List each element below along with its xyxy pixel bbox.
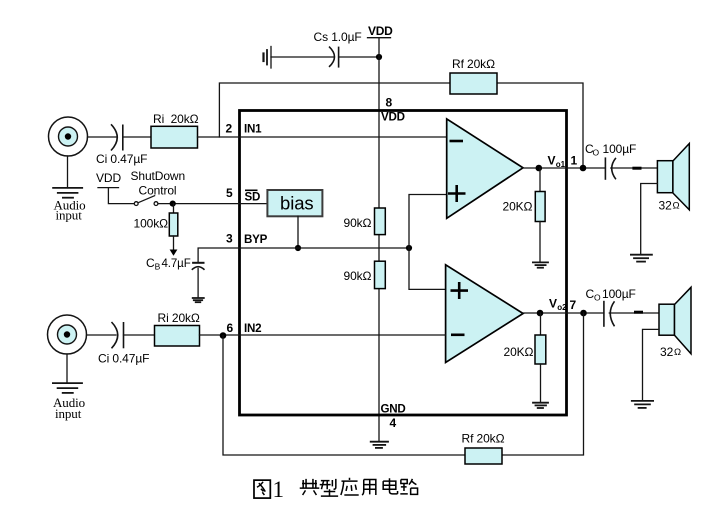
wire Cs to VDD node — [339, 56, 379, 58]
label Vo1 — [548, 154, 566, 170]
svg-text:o2: o2 — [557, 303, 567, 312]
svg-text:Ω: Ω — [673, 201, 680, 212]
svg-text:20KΩ: 20KΩ — [503, 199, 533, 213]
ground (20K output1) — [533, 222, 548, 268]
svg-text:90kΩ: 90kΩ — [344, 269, 372, 283]
svg-text:VDD: VDD — [368, 24, 393, 38]
bias block — [267, 190, 322, 216]
wire ground to Cs — [271, 56, 334, 58]
svg-text:Ω: Ω — [674, 347, 681, 358]
svg-text:32: 32 — [659, 199, 673, 213]
wire jack2 to Ci2 — [87, 334, 117, 336]
op-amp U1A — [447, 119, 523, 218]
svg-text:IN1: IN1 — [244, 123, 262, 136]
svg-text:Ci 0.47µF: Ci 0.47µF — [98, 352, 149, 366]
wire speaker1 to ground — [641, 184, 658, 255]
glyph 电 — [383, 478, 397, 494]
wire Ri to pin 2 IN1 / op-amp minus — [198, 136, 447, 138]
node shutdown junction — [170, 201, 176, 207]
capacitor Ci 0.47uF (ch2) — [98, 322, 149, 366]
speaker LS1 — [657, 144, 689, 213]
wire top feedback loop — [219, 83, 583, 168]
arrow to ground below 100k — [170, 236, 178, 256]
glyph 典 — [300, 479, 320, 495]
svg-text:1: 1 — [273, 477, 284, 502]
resistor Rf 20k (bottom) — [462, 432, 505, 465]
svg-text:3: 3 — [226, 232, 233, 246]
label Vo2 — [549, 297, 567, 313]
svg-text:7: 7 — [570, 298, 577, 312]
svg-text:5: 5 — [226, 186, 233, 200]
svg-text:VDD: VDD — [381, 111, 405, 124]
resistor 90k (lower) — [344, 261, 386, 288]
wire bias to BYP — [297, 216, 299, 248]
label Audio input 1 — [54, 197, 86, 222]
svg-text:GND: GND — [381, 403, 406, 416]
svg-text:Rf 20kΩ: Rf 20kΩ — [452, 57, 495, 71]
wire Ri2 to pin 6 IN2 / op-amp minus — [200, 334, 446, 336]
svg-text:20KΩ: 20KΩ — [504, 345, 534, 359]
svg-text:100kΩ: 100kΩ — [134, 217, 169, 231]
resistor 20K (output 2) — [504, 313, 546, 364]
VDD supply symbol — [368, 24, 394, 38]
svg-text:input: input — [55, 406, 82, 421]
node Vo1 output junction — [536, 165, 543, 172]
label Audio input 2 — [53, 395, 85, 421]
svg-text:B: B — [155, 261, 161, 271]
wire op-amp1 output to Co1 — [523, 167, 605, 169]
ground (20K output2) — [533, 364, 548, 408]
svg-text:Ci 0.47µF: Ci 0.47µF — [96, 152, 147, 166]
capacitor Co 100uF (ch1) — [585, 142, 636, 180]
switch SW (shutdown) — [134, 196, 158, 206]
wire Ci to Ri (ch1) — [123, 136, 151, 138]
wire VDD vertical rail (pin 8 through IC to pin 4 ground) — [378, 38, 380, 442]
resistor Ri 20k (ch2) — [155, 311, 200, 346]
pin SD label (with overbar) — [245, 190, 261, 203]
VDD (shutdown control) — [96, 171, 121, 188]
capacitor Ci 0.47uF (ch1) — [96, 124, 147, 166]
op-amp U1B — [446, 265, 523, 363]
svg-text:Control: Control — [139, 184, 177, 198]
wire Co1 to speaker 1 — [611, 167, 658, 169]
svg-text:VDD: VDD — [96, 171, 121, 185]
svg-text:O: O — [593, 148, 600, 158]
svg-text:V: V — [548, 154, 556, 168]
svg-text:input: input — [56, 208, 83, 223]
label ShutDown Control — [131, 169, 186, 198]
glyph 型 — [320, 479, 338, 496]
node feedback top junction — [580, 165, 587, 172]
node IN2 junction — [220, 332, 227, 339]
svg-text:1: 1 — [571, 154, 578, 168]
svg-text:90kΩ: 90kΩ — [344, 216, 372, 230]
wire jack1 to Ci — [88, 136, 117, 138]
svg-text:4.7µF: 4.7µF — [162, 258, 191, 270]
wire BYP line — [198, 248, 409, 262]
svg-text:ShutDown: ShutDown — [131, 169, 186, 183]
ground (supply bypass, sideways) — [264, 47, 272, 69]
ground (CB) — [193, 298, 204, 302]
svg-text:2: 2 — [226, 122, 233, 136]
glyph 用 — [362, 479, 376, 495]
resistor 90k (upper) — [344, 208, 386, 235]
ground (jack2) — [53, 354, 82, 393]
speaker LS2 — [659, 287, 691, 359]
node feedback bottom junction — [580, 310, 587, 317]
wire switch to pin 5 SD / bias — [158, 203, 267, 205]
resistor Ri 20k (ch1) — [151, 112, 199, 148]
ground (pin 4) — [371, 442, 388, 448]
wire Ci2 to Ri2 — [124, 334, 155, 336]
svg-text:Rf 20kΩ: Rf 20kΩ — [462, 432, 505, 446]
svg-text:Ri 20kΩ: Ri 20kΩ — [153, 112, 199, 126]
connector J1 (RCA jack, audio input 1) — [49, 117, 88, 156]
svg-text:o1: o1 — [556, 160, 566, 169]
resistor 20K (output 1) — [503, 168, 546, 222]
resistor 100k (shutdown pulldown) — [134, 204, 178, 236]
wire BYP node to op-amp plus inputs — [409, 195, 447, 290]
glyph 图 — [254, 480, 270, 498]
node VDD junction — [376, 54, 382, 60]
svg-text:Ri 20kΩ: Ri 20kΩ — [158, 311, 200, 325]
wire op-amp2 output to Co2 — [523, 312, 604, 314]
node bias/BYP junction — [295, 245, 301, 251]
ground (speaker 2) — [632, 401, 653, 408]
wire bottom feedback loop — [223, 313, 584, 455]
svg-text:32: 32 — [660, 345, 674, 359]
node Vo2 output junction — [537, 310, 544, 317]
glyph 路 — [400, 479, 417, 495]
svg-text:IN2: IN2 — [244, 322, 261, 335]
svg-text:bias: bias — [280, 193, 314, 214]
ground (jack1) — [53, 156, 82, 198]
capacitor Cs 1.0uF — [314, 30, 362, 68]
wire Co2 to speaker 2 — [609, 312, 659, 314]
ground (speaker 1) — [631, 255, 652, 262]
wire VDD to switch — [108, 188, 134, 204]
svg-text:100µF: 100µF — [602, 287, 636, 301]
wire speaker2 to ground — [643, 329, 660, 400]
node BYP junction — [406, 245, 412, 251]
svg-text:100µF: 100µF — [603, 142, 637, 156]
svg-text:Cs 1.0µF: Cs 1.0µF — [314, 30, 362, 44]
svg-text:BYP: BYP — [244, 233, 268, 246]
svg-text:8: 8 — [386, 96, 393, 110]
svg-text:6: 6 — [227, 321, 234, 335]
glyph 应 — [341, 478, 359, 495]
resistor Rf 20k (top) — [450, 57, 497, 94]
capacitor Co 100uF (ch2) — [586, 287, 636, 327]
svg-text:O: O — [594, 293, 601, 303]
polarity dash (ch2) — [634, 311, 643, 314]
svg-text:4: 4 — [390, 416, 397, 430]
svg-text:V: V — [549, 297, 557, 311]
connector J2 (RCA jack, audio input 2) — [48, 315, 87, 354]
capacitor CB 4.7uF (bypass) — [146, 256, 205, 298]
svg-text:SD: SD — [245, 191, 261, 204]
IC box — [240, 111, 567, 416]
caption: 图1 典型应用电路 — [254, 477, 418, 502]
polarity dash (ch1) — [632, 167, 641, 170]
